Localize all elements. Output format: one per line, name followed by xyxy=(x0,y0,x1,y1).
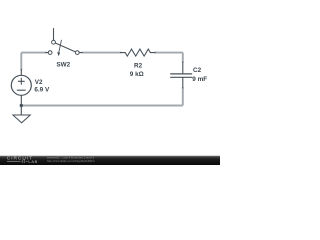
svg-text:V2: V2 xyxy=(35,79,43,86)
ground triangle xyxy=(13,115,30,123)
switch SW2 xyxy=(46,29,82,57)
svg-text:9 kΩ: 9 kΩ xyxy=(130,71,144,78)
resistor R2 zigzag xyxy=(125,49,150,56)
V2 plus sign xyxy=(18,78,24,84)
svg-text:LAB: LAB xyxy=(28,159,38,164)
light user-drawn wires xyxy=(21,53,183,106)
node junction dot xyxy=(20,104,23,107)
wire switch to resistor (horizontal) xyxy=(82,52,122,54)
wire resistor to top-right corner (horizontal) xyxy=(155,52,183,54)
wire corner down to C2 (vertical) xyxy=(182,53,184,63)
V2 minus sign xyxy=(17,89,25,91)
voltage source V2 circle xyxy=(11,75,31,95)
SW2 top terminal stub xyxy=(53,29,55,41)
SW2 right terminal circle xyxy=(75,51,79,55)
SW2 left terminal circle xyxy=(48,51,52,55)
SW2 lever xyxy=(55,43,75,52)
svg-text:C2: C2 xyxy=(193,67,202,74)
svg-text:R2: R2 xyxy=(134,62,143,69)
wire C2 bottom to bottom rail (vertical) xyxy=(182,87,184,105)
ground stub xyxy=(20,106,22,116)
resistor R2 left lead xyxy=(121,52,126,54)
capacitor C2 bottom stub xyxy=(182,78,184,88)
svg-text:6.9 V: 6.9 V xyxy=(34,86,50,93)
svg-text:http://circuitlab.com/c6kq4fw2: http://circuitlab.com/c6kq4fw2k69b4 xyxy=(47,159,95,163)
capacitor C2 top stub xyxy=(182,62,184,73)
resistor R2 right lead xyxy=(150,52,155,54)
SW2 left lead xyxy=(46,52,49,54)
CircuitLab logo line2 capacitor + LAB xyxy=(7,160,28,164)
wire top-left rail (horizontal) xyxy=(21,52,46,54)
wire V2 bottom to junction xyxy=(20,95,22,105)
SW2 right lead xyxy=(79,52,82,54)
SW2 actuation arrow xyxy=(59,40,62,52)
SW2 top terminal circle xyxy=(52,40,56,44)
capacitor C2 top plate xyxy=(171,73,192,75)
wire V2 top to top rail (vertical) xyxy=(20,53,22,71)
svg-text:9 mF: 9 mF xyxy=(192,76,207,83)
capacitor C2 bottom plate xyxy=(171,76,192,78)
voltage source V2 top stub xyxy=(20,69,22,75)
wire bottom rail (horizontal) xyxy=(21,105,183,107)
svg-text:SW2: SW2 xyxy=(56,62,70,69)
